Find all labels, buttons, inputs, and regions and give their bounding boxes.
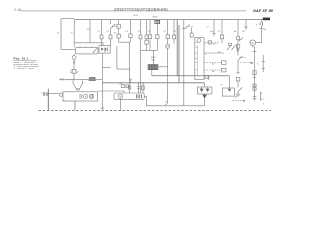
tick on long wire (120, 82, 122, 84)
wire drop col 214 (213, 20, 215, 36)
wire drop col 246 (245, 20, 247, 30)
wire top-left corner (61, 19, 74, 50)
lamp inside box (83, 94, 87, 98)
wire left jog to relay (61, 49, 75, 51)
wire into box left (48, 92, 59, 94)
wire drop col 238 (237, 20, 239, 37)
cluster under col 132 (122, 85, 125, 88)
feeders to E (128, 86, 131, 89)
long wire col 183.8 (183, 20, 185, 106)
tick on stub (61, 78, 64, 81)
col 254.5 vertical (254, 47, 256, 101)
wire drop col 174 (173, 20, 175, 35)
wire col 191.7 (191, 28, 193, 34)
wire to box G (228, 76, 230, 88)
module pin 4 dashed (204, 69, 222, 71)
connector X4 (72, 69, 76, 73)
wire drop col 150 (149, 20, 151, 35)
ground box G (222, 88, 234, 96)
junction wire y50.4 (141, 49, 158, 51)
wire to block (152, 50, 154, 64)
module box (195, 38, 204, 80)
switch col 238 (238, 56, 243, 61)
wire drop K1 coil (73, 20, 75, 48)
bus wire 2 (178, 25, 180, 83)
wire drop col 167.7 (167, 20, 169, 35)
lamp in module (197, 39, 201, 43)
wire to ground left (47, 89, 49, 111)
relay K2 box with arrows (99, 46, 110, 54)
bus turn to G box (152, 75, 230, 77)
fuse box col 110.5 (109, 35, 112, 39)
switch S2 (111, 24, 116, 29)
svg-text:M: M (251, 41, 253, 45)
wire box D to ground (74, 101, 76, 110)
wire from box B bottom right (117, 46, 130, 69)
lamp H1 (72, 56, 76, 60)
diode box 1 (117, 24, 121, 28)
svg-text:4 – стартер; 5 – реле: 4 – стартер; 5 – реле (14, 68, 35, 70)
fuse box A100 (63, 92, 98, 101)
relay K1 contact (93, 48, 97, 53)
updown arrow col 261 (260, 92, 262, 101)
battery col (260, 20, 262, 23)
svg-text:x2: x2 (207, 26, 209, 28)
fuse box col 101.5 (100, 35, 103, 39)
short col 263 (262, 55, 264, 72)
module bottom marks (205, 75, 209, 80)
wire drop col 146.5 (146, 20, 148, 35)
lamp 2 inside box (89, 94, 93, 98)
switch col 186 (185, 24, 190, 29)
header rule (21, 10, 247, 12)
connector cluster on wire (89, 78, 96, 81)
jog right col 118.6 (119, 38, 130, 93)
long horizontal left (102, 82, 204, 84)
wire drop col 140.5 (140, 20, 142, 35)
gauge circle col 167.7 (166, 44, 170, 48)
black terminal box (263, 18, 270, 21)
wire drop col 222 (221, 20, 223, 35)
svg-text:DAF XF 95: DAF XF 95 (253, 9, 274, 13)
heater bars in E (136, 94, 141, 98)
dashed into arrow (240, 62, 250, 64)
motor M (250, 40, 256, 46)
wire to box E top (98, 91, 124, 93)
lamp ground wire (119, 99, 121, 110)
wire lamp to connector (73, 60, 75, 70)
switch cluster right (227, 45, 231, 50)
lamp box E (114, 93, 144, 99)
connector circle left of box (59, 93, 62, 96)
svg-text:A100: A100 (134, 14, 138, 17)
dashed ground line (39, 109, 272, 111)
wire F exit (204, 94, 206, 106)
fuse on rail (155, 20, 160, 23)
relay pin ticks (80, 46, 92, 47)
ground box F (197, 87, 212, 94)
wire col 102 (101, 53, 103, 110)
svg-text:ЭЛЕКТРООБОРУДОВАНИЕ: ЭЛЕКТРООБОРУДОВАНИЕ (114, 7, 169, 11)
module pin 2 (204, 52, 224, 54)
wire F entry (204, 83, 206, 87)
svg-text:A258: A258 (153, 16, 159, 19)
wire drop col 130.4 (129, 20, 131, 34)
wire stub left (60, 78, 103, 80)
wire connector down (73, 73, 75, 80)
wire block to col167.7 (158, 66, 168, 68)
arrow pair into fuse box (73, 81, 77, 91)
supply rail (74, 19, 263, 21)
stub connector (130, 79, 132, 83)
lamp circle in E (118, 94, 122, 98)
connector block X340 (148, 65, 158, 70)
svg-text:2-18: 2-18 (14, 8, 21, 12)
bracket inside box (80, 94, 82, 99)
wire drop to lamp (73, 54, 75, 56)
relay K1 box (75, 47, 98, 54)
wire drop col 118.6 (118, 20, 120, 25)
exit wire box E (144, 96, 204, 106)
wire drop col 90 (89, 20, 91, 43)
caption lines (14, 60, 40, 70)
module pin 3 dashed (204, 62, 222, 64)
module pin 1 dashed (204, 42, 219, 44)
terminal cluster left (45, 92, 48, 96)
bus wire 1 (176, 20, 178, 76)
wire drop col 101.5 (101, 20, 103, 35)
wire drop col 157.3 (156, 24, 158, 35)
wire over relay (74, 43, 103, 46)
tiny labels (41, 27, 267, 106)
wire block down (151, 70, 153, 76)
wire drop col 110.5 (110, 20, 112, 24)
